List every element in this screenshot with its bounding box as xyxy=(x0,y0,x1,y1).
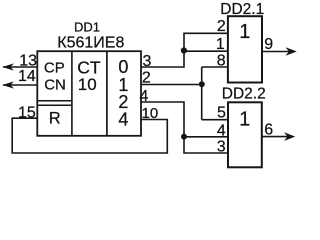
svg-text:CN: CN xyxy=(44,77,66,94)
wire output 1 to vertical bus xyxy=(141,84,202,86)
junction dot on output 1 net xyxy=(199,81,205,87)
svg-text:5: 5 xyxy=(217,104,226,121)
gate DD2.2 outline xyxy=(228,102,262,167)
wire branch to DD2.1 pin 8 xyxy=(202,66,228,68)
svg-text:10: 10 xyxy=(78,75,97,94)
svg-text:DD1: DD1 xyxy=(74,20,100,35)
svg-text:DD2.2: DD2.2 xyxy=(222,86,266,103)
svg-text:0: 0 xyxy=(118,57,128,77)
wire DD2.1 output pin 9 xyxy=(262,51,290,53)
DD1 R input box top edge xyxy=(37,104,72,106)
wire branch to DD2.1 pin 1 xyxy=(184,50,228,52)
arrow on pin 14 wire pointing left xyxy=(2,81,14,88)
svg-text:6: 6 xyxy=(264,121,273,138)
wire branch to DD2.2 pin 4 xyxy=(184,136,228,138)
wire output 2 to DD2.2 pin 3 xyxy=(141,102,228,153)
svg-text:1: 1 xyxy=(239,108,250,130)
svg-text:14: 14 xyxy=(18,68,36,85)
svg-text:4: 4 xyxy=(118,110,128,130)
wire branch to DD2.2 pin 5 xyxy=(202,119,228,121)
junction dot on output 0 net xyxy=(181,47,187,53)
arrow on output 6 wire pointing right xyxy=(284,132,295,141)
wire from output 4 pin 10 looping to reset input R pin 15 xyxy=(12,118,167,153)
svg-text:10: 10 xyxy=(142,105,159,122)
wire DD2.2 output pin 6 xyxy=(262,136,289,138)
svg-text:2: 2 xyxy=(217,18,226,35)
wire output 0 to DD2.1 pin 2 xyxy=(141,33,228,67)
svg-text:4: 4 xyxy=(217,122,226,139)
svg-text:1: 1 xyxy=(239,21,250,43)
svg-text:К561ИЕ8: К561ИЕ8 xyxy=(57,35,124,52)
svg-text:8: 8 xyxy=(217,52,226,69)
junction dot on output 2 net xyxy=(181,134,187,140)
svg-text:R: R xyxy=(49,110,61,128)
svg-text:CP: CP xyxy=(44,60,65,77)
arrow on pin 13 wire pointing left xyxy=(2,63,14,70)
DD1 CP/CN input box bottom edge xyxy=(37,100,72,102)
DD1 divider between main field and output field xyxy=(106,51,108,136)
arrow on output 9 wire pointing right xyxy=(286,47,297,56)
svg-text:9: 9 xyxy=(264,36,273,53)
wire CN input pin 14 xyxy=(3,84,37,86)
svg-text:1: 1 xyxy=(216,36,225,53)
wire vertical of output 1 net xyxy=(201,67,203,120)
svg-text:3: 3 xyxy=(217,139,226,156)
DD1 divider between input field and main field xyxy=(71,51,73,136)
counter DD1 outline xyxy=(37,51,141,136)
gate DD2.1 outline xyxy=(228,16,262,82)
wire CP input pin 13 xyxy=(3,66,37,68)
